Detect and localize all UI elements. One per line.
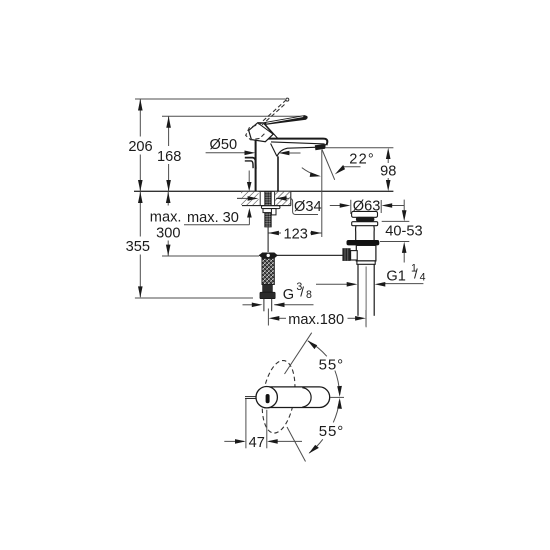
svg-text:300: 300 xyxy=(156,225,180,241)
svg-text:Ø50: Ø50 xyxy=(210,137,238,153)
svg-text:/: / xyxy=(414,266,418,281)
svg-text:98: 98 xyxy=(380,163,396,179)
svg-text:max. 30: max. 30 xyxy=(187,210,239,226)
svg-text:max.: max. xyxy=(150,209,182,225)
svg-text:123: 123 xyxy=(284,226,308,242)
svg-text:206: 206 xyxy=(128,139,152,155)
svg-text:55°: 55° xyxy=(319,423,344,440)
svg-text:8: 8 xyxy=(306,289,312,301)
svg-text:Ø63: Ø63 xyxy=(353,198,381,214)
svg-text:/: / xyxy=(300,284,304,299)
svg-text:355: 355 xyxy=(126,239,150,255)
svg-text:G1: G1 xyxy=(386,268,405,284)
svg-text:max.180: max.180 xyxy=(288,312,344,328)
svg-text:47: 47 xyxy=(249,435,265,451)
svg-text:4: 4 xyxy=(420,271,426,283)
svg-text:G: G xyxy=(283,287,294,303)
svg-text:40-53: 40-53 xyxy=(385,224,422,240)
svg-text:168: 168 xyxy=(157,149,181,165)
svg-text:22°: 22° xyxy=(349,152,375,168)
svg-text:Ø34: Ø34 xyxy=(294,199,322,215)
svg-text:55°: 55° xyxy=(319,356,344,373)
